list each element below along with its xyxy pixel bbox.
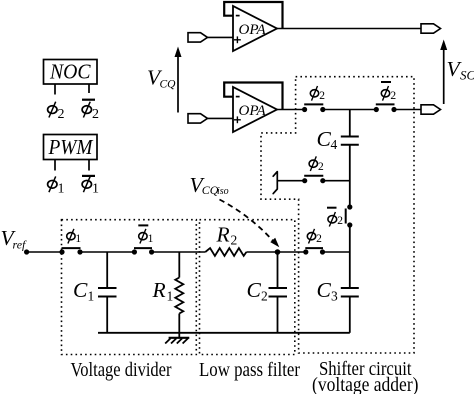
wire U1 input [208, 36, 234, 38]
svg-text:2: 2 [58, 107, 65, 122]
svg-text:R: R [216, 223, 230, 247]
label C4 [317, 127, 338, 152]
wire C2 bottom [277, 297, 279, 333]
dotted box low pass filter [200, 220, 295, 355]
label C1 [73, 278, 94, 304]
svg-text:Voltage divider: Voltage divider [71, 359, 172, 381]
svg-text:2: 2 [390, 90, 396, 102]
svg-text:OPA: OPA [239, 22, 267, 38]
svg-text:ref: ref [13, 238, 28, 252]
capacitor C3 (plates on shifter vertical) [341, 288, 359, 297]
svg-text:2: 2 [318, 161, 324, 173]
node V_ref [24, 249, 29, 254]
U2 feedback wire [224, 83, 282, 110]
output terminal top [421, 24, 441, 33]
wire R1 bottom [178, 314, 180, 333]
wire U2 output to switch [277, 109, 305, 111]
PWM stub phi1 [54, 160, 56, 171]
label phi2 (row2) [310, 86, 325, 102]
svg-text:2: 2 [337, 215, 343, 227]
PWM stub phi1bar [88, 160, 90, 171]
svg-text:iso: iso [217, 186, 229, 197]
svg-text:C: C [317, 127, 332, 151]
label phi2 (main row) [307, 229, 322, 245]
NOC stub phi2 [54, 84, 56, 95]
svg-text:NOC: NOC [49, 60, 91, 84]
svg-text:CQ: CQ [160, 79, 177, 91]
input terminal U1 [188, 33, 208, 42]
wire main row 4 [246, 251, 305, 253]
wire C4 bottom to switch phi2bar vertical [349, 145, 351, 207]
svg-text:4: 4 [331, 137, 338, 152]
ground [165, 333, 189, 344]
svg-text:1: 1 [167, 289, 174, 304]
resistor R1 [175, 278, 183, 314]
label phi1bar (switch) [138, 225, 153, 245]
op-amp U2 [233, 87, 277, 132]
capacitor C2 [269, 288, 288, 297]
switch phi2 (main row) [303, 248, 325, 254]
svg-text:1: 1 [58, 182, 65, 197]
wire C3 bottom [349, 297, 351, 333]
svg-text:2: 2 [231, 233, 238, 248]
wire R1 top [178, 252, 180, 278]
wire C4 top [349, 110, 351, 137]
capacitor C1 [98, 288, 117, 297]
svg-text:2: 2 [316, 233, 322, 245]
wire U2 input [208, 117, 234, 119]
svg-text:Low pass filter: Low pass filter [199, 359, 300, 381]
svg-text:PWM: PWM [48, 135, 94, 159]
svg-text:C: C [73, 278, 88, 302]
svg-text:2: 2 [261, 289, 268, 304]
wire main row 3 [152, 251, 206, 253]
label V_ref [1, 226, 28, 252]
V_CQ arrow [175, 47, 182, 113]
switch phi2 (row2) [302, 104, 325, 112]
wire C1 bottom [106, 297, 108, 333]
wire main row 5 [323, 251, 350, 253]
dotted box shifter circuit [261, 77, 414, 353]
svg-text:1: 1 [88, 289, 95, 304]
wire vertical below switch [349, 225, 351, 288]
svg-text:SC: SC [460, 68, 474, 83]
label phi2bar (vertical switch) [327, 208, 343, 227]
wire U1 output [277, 28, 421, 30]
node junction R2/C2 [275, 249, 281, 255]
label R1 [152, 278, 174, 304]
wire row3 right [323, 180, 350, 182]
svg-text:1: 1 [92, 182, 99, 197]
switch phi2bar (vertical) [346, 204, 353, 227]
PWM box [44, 135, 98, 160]
svg-text:2: 2 [319, 90, 325, 102]
switch phi1bar [132, 248, 154, 254]
V_SC arrow [440, 40, 447, 105]
NOC box [44, 60, 98, 85]
svg-text:1: 1 [148, 233, 154, 245]
label V_CQ [147, 66, 176, 91]
op-amp U1 [233, 6, 277, 51]
wire row3 left [277, 180, 304, 182]
label phi1 (PWM) [48, 176, 65, 196]
wire row2 right [394, 109, 421, 111]
output terminal row2 [421, 105, 441, 114]
input terminal U2 [188, 114, 208, 123]
svg-text:3: 3 [331, 289, 338, 304]
wire main row 2 [80, 251, 134, 253]
wire bottom rail [98, 332, 350, 334]
svg-text:2: 2 [92, 107, 99, 122]
dashed arrow V_CQiso [220, 200, 280, 248]
wire row2 middle [323, 109, 377, 111]
label phi1bar (PWM) [82, 176, 99, 197]
switch phi2 (row3) [302, 176, 325, 184]
dotted box voltage divider [62, 220, 197, 355]
label phi1 (switch) [67, 229, 82, 245]
label C3 [317, 278, 339, 304]
capacitor C4 [341, 137, 359, 145]
resistor R2 [205, 248, 246, 256]
switch phi1 [59, 248, 82, 254]
label R2 [216, 223, 238, 248]
switch phi2bar (row2) [374, 104, 397, 112]
label V_SC [447, 57, 474, 83]
svg-text:C: C [247, 278, 262, 302]
wire C1 top [106, 252, 108, 288]
label V_CQiso [190, 173, 229, 197]
label phi2 (row3) [309, 156, 324, 173]
svg-text:R: R [152, 278, 166, 302]
svg-text:(voltage adder): (voltage adder) [312, 374, 419, 394]
label phi2bar (row2) [381, 82, 396, 102]
label phi2bar (NOC) [82, 100, 99, 122]
label phi2 (NOC) [48, 102, 65, 122]
squiggle (broken wire symbol, row3) [273, 172, 277, 194]
svg-text:OPA: OPA [239, 103, 267, 119]
NOC stub phi2bar [88, 84, 90, 93]
svg-text:C: C [317, 278, 332, 302]
U1 feedback wire [224, 2, 282, 29]
svg-text:1: 1 [75, 233, 81, 245]
wire main row 1 [27, 251, 62, 253]
label C2 [247, 278, 268, 304]
wire C2 top [277, 252, 279, 288]
